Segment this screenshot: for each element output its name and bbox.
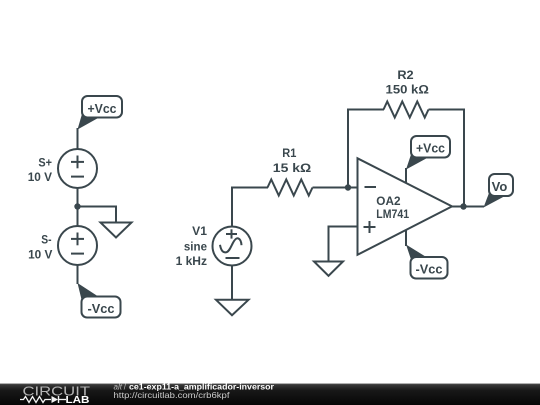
label V1 sine 1 kHz <box>176 224 208 268</box>
resistor R2 <box>384 102 429 118</box>
label R2 150 kΩ <box>386 68 430 97</box>
wire S- to -Vcc <box>77 265 79 284</box>
wire feedback up <box>347 109 349 188</box>
svg-text:http://circuitlab.com/crb6kpf: http://circuitlab.com/crb6kpf <box>114 390 231 400</box>
net flag +Vcc (left supply) <box>78 96 123 130</box>
wire op-amp V- pin <box>405 230 407 246</box>
voltage source S- 10 V <box>58 226 97 265</box>
net flag Vo <box>484 174 514 208</box>
svg-text:S+: S+ <box>38 156 52 170</box>
resistor R1 <box>268 180 313 196</box>
label R1 15 kΩ <box>273 146 312 175</box>
label S+ 10 V <box>28 156 52 184</box>
svg-text:-Vcc: -Vcc <box>416 262 443 277</box>
node at output <box>460 203 466 209</box>
svg-text:LAB: LAB <box>66 395 90 405</box>
svg-text:LM741: LM741 <box>376 207 409 221</box>
wire V1 to resistor R1 <box>231 187 268 189</box>
wire right vertical down to output <box>463 109 465 207</box>
ground (op-amp + input) <box>314 262 343 276</box>
wire V1 down to ground <box>231 266 233 301</box>
logo resistor zigzag <box>20 397 51 403</box>
footer title line <box>114 383 275 392</box>
net flag +Vcc (op-amp) <box>406 136 450 170</box>
voltage source V1 (sine) <box>213 227 252 266</box>
svg-text:R2: R2 <box>397 68 414 82</box>
wire +Vcc to S+ <box>77 128 79 150</box>
svg-text:S-: S- <box>41 232 51 246</box>
wire non-inverting input to ground <box>329 227 358 262</box>
svg-text:10 V: 10 V <box>28 248 52 262</box>
svg-text:150 kΩ: 150 kΩ <box>386 83 430 97</box>
net flag -Vcc (left supply) <box>78 283 121 318</box>
wire node to ground <box>78 207 117 223</box>
svg-text:15 kΩ: 15 kΩ <box>273 161 312 175</box>
voltage source S+ 10 V <box>58 149 97 188</box>
svg-text:+Vcc: +Vcc <box>416 141 445 156</box>
wire op-amp output <box>452 206 484 208</box>
op-amp OA2 LM741 <box>358 158 453 255</box>
svg-text:Vo: Vo <box>492 179 508 194</box>
label S- 10 V <box>28 232 52 261</box>
wire R1 to op-amp inverting input <box>313 187 358 189</box>
wire op-amp V+ pin <box>405 168 407 184</box>
svg-text:-Vcc: -Vcc <box>88 301 115 316</box>
svg-text:1 kHz: 1 kHz <box>176 254 207 268</box>
svg-text:sine: sine <box>184 239 207 253</box>
svg-text:+Vcc: +Vcc <box>88 101 117 116</box>
node at inverting input <box>345 184 351 190</box>
ground (V1) <box>216 300 249 315</box>
svg-text:V1: V1 <box>192 224 207 238</box>
wire S+ to S- <box>77 188 79 226</box>
ground (mid supply) <box>101 223 132 238</box>
wire V1 up to R1 <box>231 187 233 227</box>
svg-text:R1: R1 <box>282 146 296 160</box>
logo diode <box>52 396 67 403</box>
node junction dot <box>74 203 80 209</box>
wire R2 to right vertical <box>429 109 466 111</box>
net flag -Vcc (op-amp) <box>406 245 448 279</box>
svg-text:10 V: 10 V <box>28 170 52 184</box>
wire top left to R2 <box>347 109 384 111</box>
footer bar <box>0 384 540 405</box>
